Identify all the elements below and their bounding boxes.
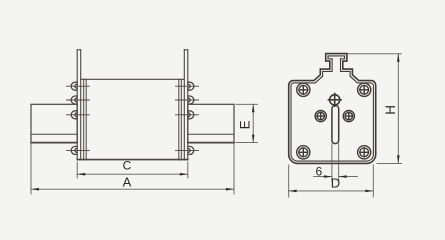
dimension E	[236, 104, 258, 142]
svg-text:C: C	[123, 159, 132, 173]
center slot	[332, 105, 339, 143]
middle right screw	[343, 111, 354, 122]
dimension C	[77, 162, 188, 178]
front view: body outline inner contour	[291, 56, 373, 161]
right blade contact (left side view)	[188, 104, 234, 142]
svg-text:H: H	[383, 105, 398, 115]
right end cap	[179, 79, 182, 160]
corner screw bottom-left	[297, 146, 310, 159]
front view: body outline outer	[289, 54, 376, 164]
corner screw top-left	[297, 83, 310, 96]
dimension A	[31, 143, 234, 194]
left grip lug	[77, 50, 81, 160]
svg-text:E: E	[238, 120, 253, 129]
right rivets with center lines	[176, 82, 199, 154]
center top screw	[328, 94, 341, 107]
svg-text:A: A	[123, 174, 132, 189]
dimension D	[289, 165, 374, 197]
corner screw bottom-right	[358, 146, 371, 159]
left blade contact (left side view)	[31, 104, 77, 142]
right grip lug	[184, 50, 188, 160]
dimension 6 (slot width)	[314, 176, 358, 178]
slot extension lines	[332, 144, 339, 181]
middle left screw	[315, 111, 326, 122]
svg-text:D: D	[331, 176, 340, 191]
corner screw top-right	[358, 83, 371, 96]
fuse body (side view)	[77, 79, 188, 159]
left rivets with center lines	[67, 82, 90, 154]
svg-text:6: 6	[315, 164, 322, 178]
dimension H	[348, 54, 402, 164]
left end cap	[84, 79, 87, 160]
